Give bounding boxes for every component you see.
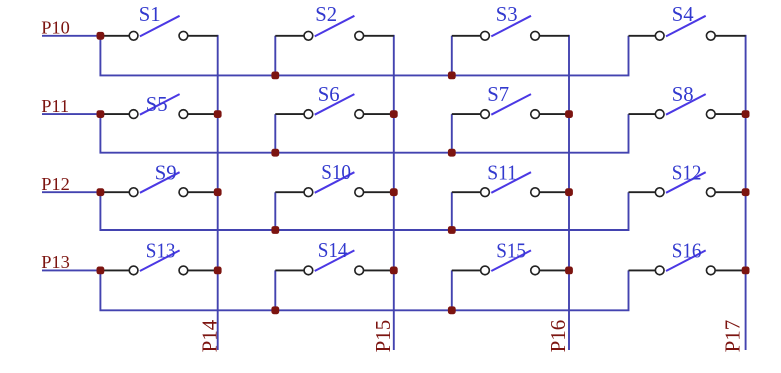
- svg-text:P10: P10: [41, 18, 70, 38]
- svg-text:S11: S11: [487, 162, 517, 184]
- svg-text:P11: P11: [41, 96, 69, 116]
- svg-text:P17: P17: [721, 320, 745, 353]
- svg-text:S16: S16: [672, 240, 702, 262]
- svg-text:S9: S9: [155, 162, 177, 184]
- svg-text:P12: P12: [41, 174, 70, 194]
- svg-text:S4: S4: [672, 4, 695, 26]
- svg-text:S13: S13: [146, 240, 176, 262]
- svg-text:S15: S15: [496, 240, 526, 262]
- svg-text:S5: S5: [146, 94, 168, 116]
- svg-text:S2: S2: [315, 4, 337, 26]
- svg-text:P15: P15: [371, 320, 395, 353]
- svg-text:S10: S10: [321, 162, 351, 184]
- svg-text:S6: S6: [318, 84, 340, 106]
- svg-text:P14: P14: [197, 319, 221, 352]
- svg-text:S12: S12: [672, 162, 702, 184]
- svg-text:S3: S3: [496, 4, 518, 26]
- svg-text:P16: P16: [546, 320, 570, 353]
- svg-text:S7: S7: [487, 84, 509, 106]
- svg-text:S1: S1: [139, 4, 161, 26]
- svg-text:P13: P13: [41, 252, 70, 272]
- svg-text:S14: S14: [318, 240, 348, 262]
- svg-text:S8: S8: [672, 84, 694, 106]
